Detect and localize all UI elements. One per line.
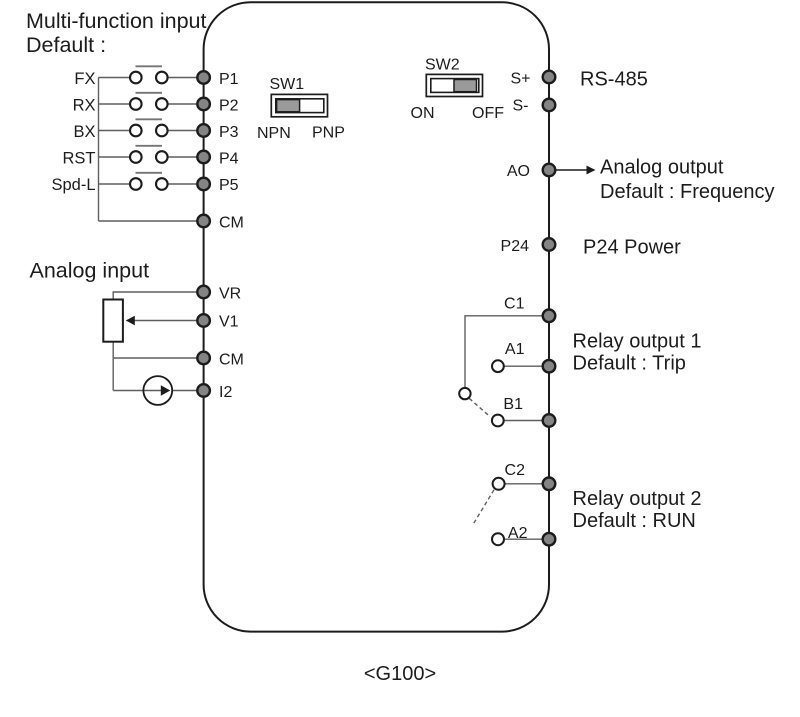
svg-text:V1: V1 <box>219 313 239 330</box>
svg-text:P1: P1 <box>219 71 239 88</box>
svg-text:ON: ON <box>411 105 435 122</box>
svg-text:P24 Power: P24 Power <box>583 237 681 259</box>
svg-text:RX: RX <box>73 96 96 114</box>
svg-text:P3: P3 <box>219 124 239 141</box>
svg-text:A1: A1 <box>505 341 525 358</box>
svg-text:VR: VR <box>219 285 241 302</box>
svg-text:Default :: Default : <box>26 33 106 57</box>
svg-text:SW1: SW1 <box>270 76 305 93</box>
svg-text:Multi-function input: Multi-function input <box>26 9 206 33</box>
svg-text:Analog output: Analog output <box>600 157 724 179</box>
svg-text:<G100>: <G100> <box>364 663 436 685</box>
svg-text:CM: CM <box>219 214 244 231</box>
svg-text:Analog input: Analog input <box>30 259 150 283</box>
svg-text:FX: FX <box>74 70 95 88</box>
svg-text:Default : Trip: Default : Trip <box>573 353 686 375</box>
svg-text:S+: S+ <box>510 71 530 88</box>
svg-text:P24: P24 <box>501 238 530 255</box>
svg-text:RS-485: RS-485 <box>580 69 648 91</box>
svg-text:P4: P4 <box>219 150 239 167</box>
svg-text:A2: A2 <box>508 525 528 542</box>
svg-text:B1: B1 <box>503 396 523 413</box>
svg-text:I2: I2 <box>219 384 232 401</box>
svg-text:RST: RST <box>63 149 96 167</box>
svg-text:Spd-L: Spd-L <box>51 176 95 194</box>
svg-text:CM: CM <box>219 351 244 368</box>
svg-text:P2: P2 <box>219 97 239 114</box>
svg-text:Default : Frequency: Default : Frequency <box>600 181 775 203</box>
svg-text:Relay output 2: Relay output 2 <box>573 488 702 510</box>
svg-text:SW2: SW2 <box>425 57 460 74</box>
svg-text:PNP: PNP <box>312 125 345 142</box>
svg-text:C1: C1 <box>504 296 525 313</box>
svg-text:P5: P5 <box>219 177 239 194</box>
svg-text:BX: BX <box>73 123 95 141</box>
svg-text:AO: AO <box>507 163 530 180</box>
svg-text:Relay output 1: Relay output 1 <box>573 331 702 353</box>
svg-text:C2: C2 <box>505 462 526 479</box>
svg-text:NPN: NPN <box>257 125 291 142</box>
svg-text:OFF: OFF <box>472 105 504 122</box>
svg-text:Default : RUN: Default : RUN <box>573 510 696 532</box>
svg-text:S-: S- <box>513 98 529 115</box>
